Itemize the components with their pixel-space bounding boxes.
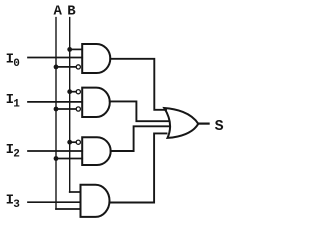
svg-text:1: 1	[13, 99, 20, 111]
wire: input I1	[28, 101, 82, 103]
wire: A tap to U1 inverted input	[56, 66, 76, 68]
svg-text:B: B	[67, 3, 76, 19]
wire: input I3	[28, 201, 81, 203]
junction dot on B at U1	[67, 47, 72, 52]
and-gate U4 (I3)	[81, 185, 110, 217]
inverter bubble U3 top input	[76, 140, 80, 144]
wire: U4 output to OR input 4	[110, 133, 167, 202]
svg-text:2: 2	[13, 149, 20, 161]
junction dot on A at U3	[54, 156, 59, 161]
wire: B tap to U1 top input	[70, 48, 83, 50]
wire: U1 output to OR input 1	[110, 59, 166, 110]
junction dot on B at U2	[67, 89, 72, 94]
junction dot on B at U3	[67, 140, 72, 145]
and-gate U1 (I0)	[82, 44, 110, 73]
wire: B tap to U2 inverted top input	[70, 91, 76, 93]
and-gate U2 (I1)	[82, 88, 110, 117]
wire: input I0	[28, 57, 82, 59]
and-gate U3 (I2)	[82, 137, 111, 165]
wire: input I2	[28, 150, 82, 152]
wire: A tap to U2 inverted bottom input	[56, 108, 76, 110]
wire: select B vertical bus	[69, 18, 71, 192]
wire: B tap to U3 inverted top input	[70, 141, 76, 143]
svg-text:S: S	[215, 118, 224, 135]
wire: A tap to U3 bottom input	[56, 158, 82, 160]
junction dot on A at U2	[54, 107, 59, 112]
junction dot on A at U1	[54, 65, 59, 70]
wire: output S stub	[198, 122, 209, 124]
svg-text:0: 0	[13, 58, 20, 70]
wire: A bend into U4 bottom input	[56, 208, 81, 210]
wire: U2 output to OR input 2	[110, 101, 169, 121]
svg-text:A: A	[54, 3, 63, 19]
wire: select A vertical bus	[55, 18, 57, 209]
wire: B bend into U4 top input	[70, 191, 81, 193]
svg-text:3: 3	[13, 199, 20, 211]
wire: U3 output to OR input 3	[111, 126, 169, 151]
or-gate U5 (output S)	[164, 108, 198, 138]
inverter bubble U2 top input	[76, 90, 80, 94]
inverter bubble U2 bottom input	[76, 107, 80, 111]
inverter bubble U1 bottom input	[76, 65, 80, 69]
